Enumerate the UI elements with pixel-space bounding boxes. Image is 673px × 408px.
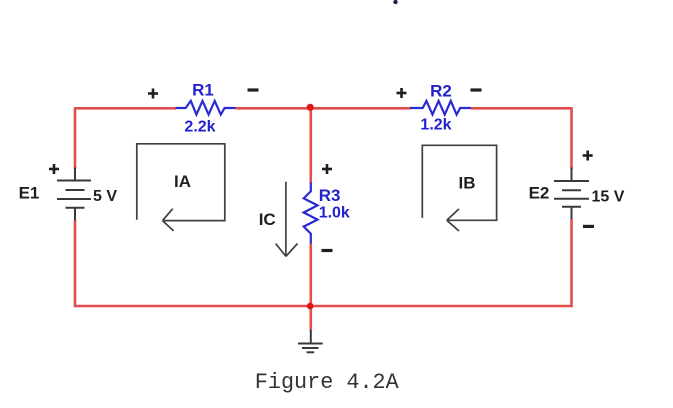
plus sign E2: [583, 151, 593, 161]
node top junction: [307, 104, 314, 111]
svg-text:E1: E1: [19, 184, 40, 203]
wire right upper (corner to E2): [570, 107, 573, 169]
plus sign R2: [397, 88, 407, 98]
minus sign E2: [583, 225, 594, 228]
svg-text:1.2k: 1.2k: [420, 117, 451, 134]
svg-text:R1: R1: [192, 81, 214, 100]
wire top-left segment (node to R1): [75, 107, 176, 110]
resistor R3: [304, 182, 318, 243]
loop arrow IA: [137, 144, 225, 231]
svg-text:R3: R3: [319, 186, 341, 205]
wire top-middle segment (R1 to R2): [236, 107, 411, 110]
plus sign E1: [49, 164, 59, 174]
battery E2: [554, 168, 589, 220]
resistor R1: [176, 101, 236, 115]
resistor R2: [410, 101, 471, 115]
wire left upper (corner to E1): [74, 107, 77, 169]
svg-text:2.2k: 2.2k: [184, 119, 215, 136]
ground: [298, 330, 323, 352]
svg-text:1.0k: 1.0k: [319, 205, 350, 222]
wire left lower (E1 to bottom corner): [74, 220, 77, 307]
wire right lower (E2 to bottom corner): [570, 219, 573, 308]
svg-text:IA: IA: [174, 172, 191, 191]
svg-text:IC: IC: [259, 210, 276, 229]
svg-text:IB: IB: [459, 174, 476, 193]
minus sign R2: [471, 88, 482, 91]
plus sign R1: [148, 89, 158, 99]
svg-text:R2: R2: [430, 82, 452, 101]
plus sign R3: [322, 164, 332, 174]
arrow IC: [276, 182, 298, 257]
wire middle vertical lower (R3 to bottom node): [309, 244, 312, 307]
stray dot top center: [393, 0, 397, 4]
svg-text:5 V: 5 V: [93, 188, 117, 205]
node bottom junction: [307, 303, 314, 310]
svg-text:15 V: 15 V: [592, 189, 625, 206]
wire bottom: [75, 305, 572, 308]
loop arrow IB: [422, 145, 496, 231]
minus sign R3: [322, 249, 333, 252]
wire middle vertical upper (node to R3): [309, 108, 312, 183]
wire ground stub: [309, 306, 312, 331]
minus sign R1: [248, 88, 259, 91]
svg-text:E2: E2: [529, 184, 550, 203]
wire top-right segment (R2 to right corner): [471, 107, 572, 110]
svg-text:Figure 4.2A: Figure 4.2A: [255, 370, 400, 395]
battery E1: [57, 168, 91, 221]
